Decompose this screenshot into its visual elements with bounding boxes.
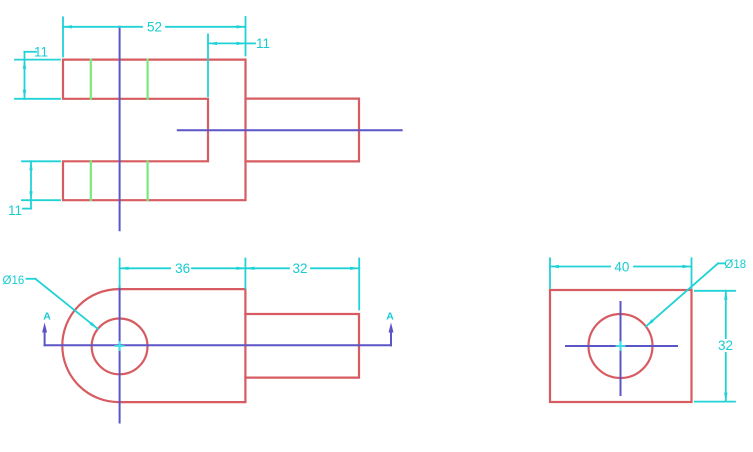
section arrow right head xyxy=(389,323,394,333)
dimension 32 front: arrow left xyxy=(245,267,254,270)
vertical centerline (side view) xyxy=(620,302,622,395)
dimension 11 left-bottom: extension line upper xyxy=(22,160,60,162)
label Ø18 leader horizontal xyxy=(718,262,725,264)
dimension 11 top-right: arrow right xyxy=(237,42,246,45)
dimension 36: arrow left xyxy=(120,267,129,270)
vertical centerline (front view) xyxy=(119,287,121,423)
dimension 36: extension right xyxy=(244,259,246,289)
dimension 11 top-right: arrow left xyxy=(208,42,217,45)
dimension 11 left-top: extension line lower xyxy=(15,98,60,100)
horizontal centerline (side view) xyxy=(566,345,677,347)
section arrow right shaft xyxy=(390,332,392,345)
dimension 11 left-top: extension line upper xyxy=(15,59,60,61)
dimension 11 left-bottom: extension line lower xyxy=(22,199,60,201)
center mark (front view hole) xyxy=(116,342,124,350)
svg-text:11: 11 xyxy=(8,203,22,218)
hidden hole line left (top arm) xyxy=(90,60,92,99)
dimension 52: arrow right xyxy=(237,25,246,28)
hole circle (front view) xyxy=(92,319,148,375)
dimension 36: dim line xyxy=(120,267,170,269)
dimension 11 top-right: dim line xyxy=(208,42,246,44)
dimension 11 top-right: extension line xyxy=(207,35,209,97)
dimension 32 side: dim line xyxy=(725,291,727,338)
hidden hole line right (top arm) xyxy=(147,60,149,99)
svg-text:52: 52 xyxy=(147,20,162,35)
label Ø18 arrowhead xyxy=(646,319,654,326)
dimension 40: extension right xyxy=(691,258,693,288)
svg-text:32: 32 xyxy=(292,261,307,276)
dimension 32 side: extension bottom xyxy=(695,401,735,403)
dimension 36: arrow right xyxy=(236,267,245,270)
hidden hole line left (bottom arm) xyxy=(90,161,92,200)
dimension 32 front: extension right xyxy=(358,259,360,310)
dimension 32 side: arrow up xyxy=(724,291,727,300)
dimension 32 side: arrow down xyxy=(724,393,727,402)
hole circle (side view) xyxy=(589,314,653,378)
section arrow left shaft xyxy=(44,332,46,345)
dimension 11 left-top: arrow up xyxy=(23,60,26,69)
dimension 40: arrow left xyxy=(550,265,559,268)
dimension 32 front: arrow right xyxy=(350,267,359,270)
dimension 40: extension left xyxy=(549,258,551,288)
dimension 52: extension line right xyxy=(245,17,247,56)
svg-text:11: 11 xyxy=(256,36,270,51)
dimension 11 left-top: dim line with leader up xyxy=(24,52,26,99)
shaft rectangle (front view) xyxy=(245,314,359,378)
vertical centerline (top view) xyxy=(119,27,121,231)
svg-text:Ø16: Ø16 xyxy=(3,275,25,287)
svg-text:A: A xyxy=(43,310,51,322)
dimension 11 left-top: arrow down xyxy=(23,90,26,99)
hidden hole line right (bottom arm) xyxy=(147,161,149,200)
dimension 40: arrow right xyxy=(683,265,692,268)
body rectangle (side view) xyxy=(550,290,692,402)
dimension 32 front: dim line xyxy=(245,267,289,269)
fork body outline (top view) xyxy=(63,60,246,201)
label Ø16 leader horizontal xyxy=(27,278,36,280)
dimension 32 side: extension top xyxy=(695,290,735,292)
section arrow left head xyxy=(42,323,47,333)
dimension 11 left-bottom: dim line with leader down xyxy=(30,161,32,208)
svg-text:Ø18: Ø18 xyxy=(724,259,746,271)
dimension 11 top-right: tail to text xyxy=(246,42,256,44)
dimension 11 left-bottom: arrow down xyxy=(29,191,32,200)
dimension 11 left-top: leader horizontal xyxy=(25,51,37,53)
label Ø16 arrowhead xyxy=(90,322,98,329)
dimension 52: extension line left xyxy=(62,17,64,56)
svg-text:A: A xyxy=(386,310,394,322)
label Ø18 leader diagonal xyxy=(646,263,718,326)
body outline with round end (front view) xyxy=(62,289,245,402)
dimension 36: extension left xyxy=(119,259,121,288)
horizontal centerline (top view) xyxy=(178,129,402,131)
svg-text:40: 40 xyxy=(614,259,629,274)
horizontal centerline / section line A-A (front view) xyxy=(45,344,391,346)
shaft rectangle (top view) xyxy=(246,99,360,162)
label Ø16 leader diagonal xyxy=(35,279,97,329)
dimension 11 left-bottom: arrow up xyxy=(29,161,32,170)
dimension 40: dim line xyxy=(550,266,610,268)
svg-text:32: 32 xyxy=(718,338,733,353)
dimension 52: arrow left xyxy=(63,25,72,28)
dimension 52: dim line xyxy=(63,26,142,28)
svg-text:36: 36 xyxy=(175,261,190,276)
center mark (side view hole) xyxy=(617,342,625,350)
svg-text:11: 11 xyxy=(34,45,48,60)
dimension 11 left-bottom: leader horizontal xyxy=(23,208,31,210)
